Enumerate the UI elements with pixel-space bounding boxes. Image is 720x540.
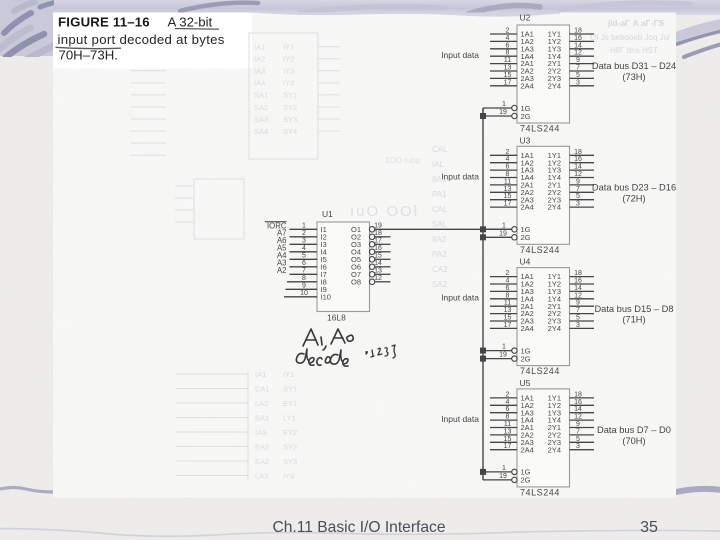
svg-text:4: 4 <box>506 35 510 42</box>
svg-text:SA1: SA1 <box>254 91 268 100</box>
svg-text:12: 12 <box>374 275 382 282</box>
svg-text:Input data: Input data <box>441 50 479 60</box>
svg-text:17: 17 <box>504 79 512 86</box>
svg-text:IA3: IA3 <box>254 67 265 76</box>
svg-text:12: 12 <box>574 414 582 421</box>
wire input pin 4 of U5 <box>490 399 517 406</box>
svg-text:U5: U5 <box>520 378 531 388</box>
wire output pin 16 of U2 <box>570 35 595 42</box>
wire input pin 3 of U1 <box>277 236 317 245</box>
svg-text:13: 13 <box>504 65 512 72</box>
svg-text:2: 2 <box>506 149 510 156</box>
wire enable pin 19 (2G) of U5 <box>483 473 512 480</box>
wire input pin 2 of U3 <box>490 149 517 156</box>
svg-text:(70H): (70H) <box>622 436 645 446</box>
svg-text:4: 4 <box>506 278 510 285</box>
wire input pin 17 of U3 <box>490 201 517 208</box>
wire output pin 13 of U1 <box>374 268 390 275</box>
svg-text:11: 11 <box>504 57 511 64</box>
wire input pin 2 of U5 <box>490 391 517 398</box>
svg-text:IA2: IA2 <box>254 55 265 64</box>
svg-text:5: 5 <box>302 253 306 260</box>
svg-text:17: 17 <box>504 443 512 450</box>
svg-text:6: 6 <box>506 42 510 49</box>
svg-text:6: 6 <box>302 260 306 267</box>
wire input pin 11 of U3 <box>490 178 517 185</box>
svg-text:CAL: CAL <box>432 145 448 154</box>
svg-text:EA2: EA2 <box>255 457 269 466</box>
wire output pin 3 of U2 <box>570 79 595 86</box>
wire enable pin 1 (1G) of U5, junction <box>480 465 512 475</box>
svg-text:LA3: LA3 <box>255 472 268 481</box>
wire input pin 13 of U4 <box>490 307 517 314</box>
svg-text:35: 35 <box>640 519 658 536</box>
svg-text:U1: U1 <box>322 209 333 219</box>
wire output pin 9 of U4 <box>570 300 595 307</box>
wire output pin 14 of U5 <box>570 406 595 413</box>
wire input pin 6 of U4 <box>490 285 517 292</box>
wire input pin 15 of U4 <box>490 315 517 322</box>
svg-text:18: 18 <box>574 28 582 35</box>
label Input data for U2 <box>441 50 479 60</box>
svg-text:16: 16 <box>374 245 382 252</box>
svg-text:14: 14 <box>574 406 582 413</box>
svg-text:2: 2 <box>506 270 510 277</box>
wire output pin 12 of U2 <box>570 50 595 57</box>
svg-text:19: 19 <box>499 352 507 359</box>
svg-text:SY2: SY2 <box>283 443 297 452</box>
svg-text:input port decoded at bytes: input port decoded at bytes <box>58 32 225 47</box>
svg-text:CA2: CA2 <box>432 265 448 274</box>
wire input pin 13 of U5 <box>490 428 517 435</box>
svg-text:IY3: IY3 <box>283 67 294 76</box>
buffer U4 74LS244 <box>512 257 570 377</box>
wire output pin 12 of U3 <box>570 171 595 178</box>
wire output pin 15 of U1 <box>374 253 390 260</box>
svg-text:2G: 2G <box>521 476 531 485</box>
wire input pin 11 of U5 <box>490 421 517 428</box>
svg-text:9: 9 <box>576 178 580 185</box>
svg-text:(71H): (71H) <box>622 315 645 325</box>
svg-text:IA3: IA3 <box>255 428 266 437</box>
wire output pin 19 of U1 <box>374 223 512 230</box>
svg-text:10: 10 <box>300 290 308 297</box>
wire input pin 17 of U5 <box>490 443 517 450</box>
svg-text:7: 7 <box>576 307 580 314</box>
wire output pin 16 of U5 <box>570 399 595 406</box>
svg-text:O8: O8 <box>351 277 361 286</box>
wire input pin 8 of U2 <box>490 50 517 57</box>
buffer U2 74LS244 <box>512 13 570 134</box>
svg-text:6: 6 <box>506 164 510 171</box>
svg-text:IY1: IY1 <box>283 43 294 52</box>
wire output pin 3 of U5 <box>570 443 595 450</box>
svg-text:Data bus D15 – D8: Data bus D15 – D8 <box>594 304 673 314</box>
wire input pin 4 of U3 <box>490 156 517 163</box>
svg-text:16: 16 <box>574 156 582 163</box>
svg-text:3: 3 <box>576 443 580 450</box>
wire input pin 2 of U1 <box>277 228 317 237</box>
svg-text:4: 4 <box>506 156 510 163</box>
buffer U3 74LS244 <box>512 135 570 255</box>
wire output pin 9 of U2 <box>570 57 595 64</box>
svg-text:16L8: 16L8 <box>327 312 346 322</box>
svg-text:1: 1 <box>502 344 506 351</box>
wire enable pin 1 (1G) of U3, junction <box>480 222 512 232</box>
label Input data for U5 <box>441 414 479 424</box>
svg-text:9: 9 <box>576 57 580 64</box>
svg-text:2Y4: 2Y4 <box>548 81 561 90</box>
svg-text:11: 11 <box>504 300 511 307</box>
wire output pin 5 of U4 <box>570 315 595 322</box>
wire input pin 13 of U2 <box>490 65 517 72</box>
svg-text:EY1: EY1 <box>283 399 297 408</box>
svg-text:9: 9 <box>576 421 580 428</box>
svg-text:13: 13 <box>374 268 382 275</box>
wire enable pin 19 (2G) of U2, junction <box>480 109 512 119</box>
svg-text:U4: U4 <box>520 257 531 267</box>
svg-text:11: 11 <box>504 178 511 185</box>
svg-text:18: 18 <box>574 270 582 277</box>
svg-text:15: 15 <box>504 72 512 79</box>
wire output pin 17 of U1 <box>374 238 390 245</box>
svg-text:12: 12 <box>574 171 582 178</box>
svg-text:2: 2 <box>506 391 510 398</box>
svg-text:74LS244: 74LS244 <box>520 366 560 376</box>
svg-text:6: 6 <box>506 285 510 292</box>
wire output pin 14 of U4 <box>570 285 595 292</box>
label Input data for U3 <box>441 171 479 181</box>
svg-text:7: 7 <box>576 428 580 435</box>
svg-text:IA4: IA4 <box>254 79 265 88</box>
wire output pin 5 of U2 <box>570 72 595 79</box>
wire output pin 16 of U4 <box>570 278 595 285</box>
wire output pin 14 of U2 <box>570 42 595 49</box>
svg-text:Ch.11 Basic I/O Interface: Ch.11 Basic I/O Interface <box>272 519 445 536</box>
svg-text:14: 14 <box>574 285 582 292</box>
svg-text:I10: I10 <box>321 292 331 301</box>
svg-text:2A4: 2A4 <box>521 324 534 333</box>
wire output pin 18 of U5 <box>570 391 595 398</box>
svg-text:(73H): (73H) <box>622 72 645 82</box>
svg-text:12: 12 <box>574 292 582 299</box>
wire enable bus from PAL O1 <box>482 108 484 480</box>
wire input pin 17 of U2 <box>490 79 517 86</box>
wire input pin 9 of U1 <box>286 283 318 290</box>
wire input pin 8 of U5 <box>490 414 517 421</box>
svg-text:Data bus D31 – D24: Data bus D31 – D24 <box>592 61 676 71</box>
svg-text:2A4: 2A4 <box>521 81 534 90</box>
svg-text:1: 1 <box>502 101 506 108</box>
svg-text:SY4: SY4 <box>283 127 297 136</box>
svg-text:74LS244: 74LS244 <box>520 487 560 497</box>
svg-text:74LS244: 74LS244 <box>520 245 560 255</box>
svg-text:8: 8 <box>506 414 510 421</box>
svg-text:15: 15 <box>504 436 512 443</box>
svg-text:5: 5 <box>576 315 580 322</box>
svg-text:IY4: IY4 <box>283 79 294 88</box>
svg-text:Input data: Input data <box>441 293 479 303</box>
svg-text:(72H): (72H) <box>622 193 645 203</box>
svg-text:19: 19 <box>499 230 507 237</box>
svg-text:3: 3 <box>576 79 580 86</box>
svg-text:4: 4 <box>506 399 510 406</box>
svg-text:7: 7 <box>302 268 306 275</box>
wire input pin 2 of U2 <box>490 28 517 35</box>
svg-text:8: 8 <box>506 171 510 178</box>
svg-text:Data bus D23 – D16: Data bus D23 – D16 <box>592 183 676 193</box>
svg-text:2: 2 <box>506 28 510 35</box>
label Data bus D23-D16 (72H) <box>592 183 676 204</box>
wire enable pin 1 (1G) of U2 <box>483 101 512 116</box>
svg-text:17: 17 <box>374 238 382 245</box>
svg-text:7: 7 <box>576 186 580 193</box>
wire output pin 16 of U1 <box>374 245 390 252</box>
svg-text:6: 6 <box>506 406 510 413</box>
svg-text:2: 2 <box>302 230 306 237</box>
svg-text:70H–73H.: 70H–73H. <box>59 47 118 62</box>
wire enable pin 19 (2G) of U4, junction <box>480 352 512 362</box>
wire input pin 6 of U5 <box>490 406 517 413</box>
svg-text:3: 3 <box>302 238 306 245</box>
svg-text:LA2: LA2 <box>255 399 268 408</box>
svg-text:3: 3 <box>576 201 580 208</box>
svg-text:SA2: SA2 <box>432 280 448 289</box>
svg-text:16: 16 <box>574 35 582 42</box>
svg-text:8: 8 <box>506 292 510 299</box>
wire output pin 7 of U2 <box>570 65 595 72</box>
svg-text:8: 8 <box>506 50 510 57</box>
svg-text:8: 8 <box>302 275 306 282</box>
wire input pin 15 of U3 <box>490 193 517 200</box>
svg-text:Input data: Input data <box>441 171 479 181</box>
label Data bus D7-D0 (70H) <box>597 425 671 446</box>
svg-text:74LS244: 74LS244 <box>520 124 560 134</box>
buffer U5 74LS244 <box>512 378 570 498</box>
svg-text:EY2: EY2 <box>283 428 297 437</box>
svg-text:3: 3 <box>576 322 580 329</box>
wire output pin 3 of U3 <box>570 201 595 208</box>
wire input pin 8 of U3 <box>490 171 517 178</box>
svg-text:11: 11 <box>504 421 511 428</box>
svg-text:1OO ruoq: 1OO ruoq <box>385 156 420 165</box>
svg-text:17: 17 <box>504 201 512 208</box>
svg-text:SAL: SAL <box>432 220 448 229</box>
svg-text:18: 18 <box>374 230 382 237</box>
svg-text:SY2: SY2 <box>283 103 297 112</box>
wire input pin 4 of U2 <box>490 35 517 42</box>
svg-text:CAL: CAL <box>432 205 448 214</box>
svg-text:A2: A2 <box>277 266 287 275</box>
svg-text:18: 18 <box>574 149 582 156</box>
svg-text:14: 14 <box>574 164 582 171</box>
wire input pin 10 of U1 <box>284 290 317 297</box>
svg-text:1: 1 <box>502 222 506 229</box>
svg-text:17: 17 <box>504 322 512 329</box>
svg-text:15: 15 <box>374 253 382 260</box>
svg-text:2G: 2G <box>521 112 531 121</box>
wire input pin 8 of U1 <box>287 275 317 282</box>
svg-text:EA2: EA2 <box>255 443 269 452</box>
wire output pin 12 of U1 <box>374 275 390 282</box>
wire input pin 6 of U3 <box>490 164 517 171</box>
svg-text:16: 16 <box>574 399 582 406</box>
wire input pin 2 of U4 <box>490 270 517 277</box>
svg-text:19: 19 <box>499 473 507 480</box>
wire output pin 7 of U5 <box>570 428 595 435</box>
wire output pin 18 of U1 <box>374 230 390 237</box>
svg-text:2Y4: 2Y4 <box>548 324 561 333</box>
handwritten note A1, A0 decode <box>296 329 395 366</box>
svg-text:7: 7 <box>576 65 580 72</box>
svg-text:1: 1 <box>502 465 506 472</box>
wire input pin 4 of U4 <box>490 278 517 285</box>
svg-text:2G: 2G <box>521 354 531 363</box>
wire output pin 9 of U3 <box>570 178 595 185</box>
svg-text:LY1: LY1 <box>283 414 296 423</box>
svg-text:SA4: SA4 <box>254 127 268 136</box>
svg-text:13: 13 <box>504 307 512 314</box>
wire input pin 6 of U1 <box>277 258 317 267</box>
svg-text:9: 9 <box>576 300 580 307</box>
svg-text:U2: U2 <box>520 13 531 23</box>
svg-text:PA1: PA1 <box>432 190 447 199</box>
wire output pin 14 of U3 <box>570 164 595 171</box>
svg-text:IAL: IAL <box>432 160 445 169</box>
wire input pin 11 of U2 <box>490 57 517 64</box>
svg-text:IA1: IA1 <box>254 43 265 52</box>
label Data bus D15-D8 (71H) <box>594 304 673 325</box>
svg-text:13: 13 <box>504 428 512 435</box>
svg-text:Data bus D7 – D0: Data bus D7 – D0 <box>597 425 671 435</box>
wire output pin 9 of U5 <box>570 421 595 428</box>
wire output pin 18 of U4 <box>570 270 595 277</box>
svg-text:8A2: 8A2 <box>432 235 447 244</box>
svg-text:ıuO OOł: ıuO OOł <box>350 203 419 220</box>
PAL U1 16L8 decoder <box>317 209 375 322</box>
wire output pin 14 of U1 <box>374 260 390 267</box>
wire output pin 7 of U4 <box>570 307 595 314</box>
svg-text:2A4: 2A4 <box>521 203 534 212</box>
svg-text:SA2: SA2 <box>254 103 268 112</box>
svg-text:18: 18 <box>574 391 582 398</box>
wire input pin 6 of U2 <box>490 42 517 49</box>
svg-text:A 32-bit: A 32-bit <box>168 14 213 29</box>
svg-text:FIGURE 11–16: FIGURE 11–16 <box>58 14 150 29</box>
wire input pin 8 of U4 <box>490 292 517 299</box>
svg-text:2Y4: 2Y4 <box>548 203 561 212</box>
svg-text:5: 5 <box>576 72 580 79</box>
wire input pin 17 of U4 <box>490 322 517 329</box>
svg-text:Input data: Input data <box>441 414 479 424</box>
svg-text:5: 5 <box>576 436 580 443</box>
wire input pin 11 of U4 <box>490 300 517 307</box>
wire output pin 16 of U3 <box>570 156 595 163</box>
svg-text:13: 13 <box>504 186 512 193</box>
svg-text:IA1: IA1 <box>255 370 266 379</box>
svg-text:CA1: CA1 <box>255 385 270 394</box>
svg-text:19: 19 <box>499 109 507 116</box>
svg-text:2G: 2G <box>521 233 531 242</box>
label Input data for U4 <box>441 293 479 303</box>
svg-text:SA3: SA3 <box>254 115 268 124</box>
svg-text:IY1: IY1 <box>283 370 294 379</box>
svg-text:15: 15 <box>504 315 512 322</box>
wire input pin 7 of U1 <box>277 266 317 275</box>
svg-text:9: 9 <box>302 283 306 290</box>
svg-text:SY3: SY3 <box>283 115 297 124</box>
wire output pin 18 of U2 <box>570 28 595 35</box>
svg-text:12: 12 <box>574 50 582 57</box>
svg-text:2A4: 2A4 <box>521 445 534 454</box>
svg-text:19: 19 <box>374 223 382 230</box>
svg-text:SY1: SY1 <box>283 91 297 100</box>
svg-text:1: 1 <box>302 223 306 230</box>
wire output pin 7 of U3 <box>570 186 595 193</box>
wire input pin 5 of U1 <box>277 251 317 260</box>
svg-text:SY3: SY3 <box>283 457 297 466</box>
svg-text:14: 14 <box>574 42 582 49</box>
wire input pin 15 of U2 <box>490 72 517 79</box>
wire enable pin 19 (2G) of U3, junction <box>480 230 512 240</box>
svg-text:2Y4: 2Y4 <box>548 445 561 454</box>
svg-text:16: 16 <box>574 278 582 285</box>
svg-text:U3: U3 <box>520 135 531 145</box>
svg-text:5: 5 <box>576 193 580 200</box>
wire input pin 1 of U1 <box>265 221 317 230</box>
wire input pin 15 of U5 <box>490 436 517 443</box>
wire output pin 5 of U3 <box>570 193 595 200</box>
wire output pin 5 of U5 <box>570 436 595 443</box>
wire output pin 18 of U3 <box>570 149 595 156</box>
svg-text:H8Γ bns HST: H8Γ bns HST <box>610 46 658 55</box>
wire input pin 4 of U1 <box>277 243 317 252</box>
wire output pin 12 of U4 <box>570 292 595 299</box>
svg-text:BA1: BA1 <box>255 414 269 423</box>
label Data bus D31-D24 (73H) <box>592 61 676 82</box>
svg-text:IY2: IY2 <box>283 55 294 64</box>
wire output pin 3 of U4 <box>570 322 595 329</box>
svg-text:jid-aΓ A aΓ-ΓS: jid-aΓ A aΓ-ΓS <box>607 18 665 28</box>
wire enable pin 1 (1G) of U4, junction <box>480 344 512 354</box>
svg-text:OI Js bebooeb Joq Jul: OI Js bebooeb Joq Jul <box>590 33 670 42</box>
svg-text:PA2: PA2 <box>432 250 447 259</box>
svg-text:IY4: IY4 <box>283 472 294 481</box>
svg-text:SY1: SY1 <box>283 385 297 394</box>
wire output pin 12 of U5 <box>570 414 595 421</box>
svg-text:4: 4 <box>302 245 306 252</box>
wire input pin 13 of U3 <box>490 186 517 193</box>
svg-text:14: 14 <box>374 260 382 267</box>
svg-text:15: 15 <box>504 193 512 200</box>
